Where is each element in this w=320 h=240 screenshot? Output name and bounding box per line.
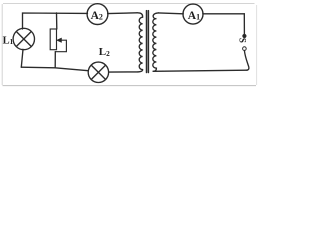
ammeter A1: [183, 4, 203, 24]
border frame: [2, 4, 256, 86]
wire top-left corner to A2: [23, 13, 88, 29]
svg-text:A1: A1: [188, 10, 200, 22]
transformer secondary coil: [153, 13, 159, 71]
switch S bottom terminal: [243, 47, 247, 51]
svg-text:L1: L1: [3, 35, 14, 46]
lamp L1: [13, 28, 34, 49]
rheostat slider arrow: [55, 38, 66, 52]
wire bottom right to secondary coil: [153, 70, 247, 71]
wire L2 to primary coil: [109, 71, 138, 73]
rheostat R bottom lead: [54, 52, 56, 68]
wire A2 to transformer primary: [108, 12, 137, 15]
svg-text:S: S: [237, 38, 247, 43]
lamp L2: [88, 62, 108, 82]
wire A1 to top-right corner: [203, 13, 244, 15]
wire L1 bottom lead: [21, 49, 23, 67]
switch S top terminal: [243, 34, 246, 37]
svg-text:A2: A2: [91, 10, 103, 22]
wire right side down to switch: [243, 14, 245, 34]
wire switch to bottom-right corner: [244, 51, 249, 71]
transformer primary coil: [137, 13, 143, 72]
rheostat R body: [50, 29, 56, 50]
rheostat R top lead: [56, 13, 58, 29]
wire junction bar to L2: [21, 67, 88, 71]
wire secondary top to A1: [159, 12, 184, 15]
svg-text:L2: L2: [99, 46, 110, 58]
transformer core: [147, 11, 149, 73]
ammeter A2: [87, 4, 108, 25]
